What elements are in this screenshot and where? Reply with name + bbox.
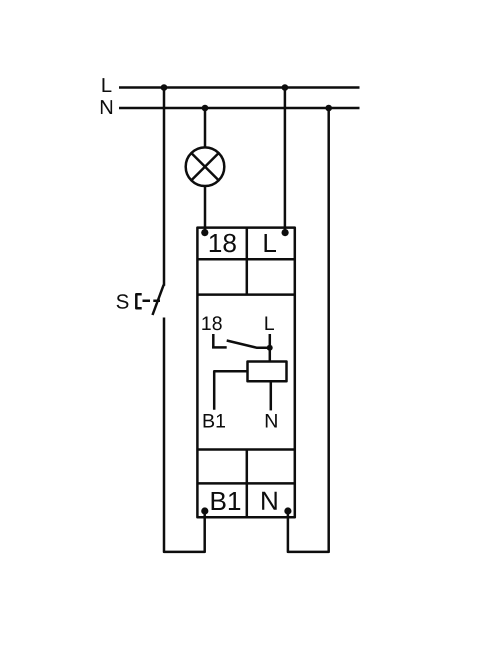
terminal N dot	[284, 507, 291, 514]
wire L supply line	[119, 86, 360, 89]
switch S actuator dashed link	[143, 300, 161, 303]
device U1 bottom terminal row divider	[197, 482, 294, 485]
internal junction dot on L	[267, 345, 273, 351]
switch S contact arm	[153, 285, 165, 316]
terminal 18 label	[210, 234, 236, 253]
switch S push-button actuator bracket	[136, 294, 141, 308]
lamp E1 cross	[191, 153, 218, 180]
internal wire from L label to coil	[269, 334, 272, 362]
junction on N line to lamp	[202, 105, 209, 112]
internal wire coil to B1	[214, 371, 247, 410]
wire from N line to lamp	[204, 108, 207, 148]
junction on L line to terminal L	[282, 84, 289, 91]
internal relay contact arm K1	[227, 341, 270, 348]
terminal 18 dot	[201, 229, 208, 236]
internal node N label	[266, 414, 277, 428]
wire from L line down to switch S	[163, 87, 166, 286]
switch S label	[117, 294, 129, 308]
wire from N line down right side to terminal N	[288, 108, 329, 552]
terminal N label	[262, 492, 277, 510]
junction on N line to terminal N branch	[325, 105, 332, 112]
device U1 bottom cells vertical divider	[246, 450, 249, 518]
node N (supply line label)	[101, 100, 112, 114]
relay coil K1	[248, 362, 287, 382]
terminal L label	[265, 234, 277, 252]
lamp E1 circle	[186, 147, 225, 186]
wire from switch S down left side	[164, 318, 205, 552]
node L (supply line label)	[103, 78, 112, 92]
internal wire from 18 label down	[212, 334, 215, 348]
terminal B1 label	[212, 492, 241, 510]
internal node L label	[265, 317, 274, 331]
device U1 top terminal row divider	[197, 258, 294, 261]
internal node 18 label	[202, 316, 221, 330]
device U1 top cells vertical divider	[246, 228, 249, 295]
terminal L dot	[282, 229, 289, 236]
internal contact fixed foot	[212, 346, 227, 349]
internal wire coil to N	[270, 381, 273, 410]
device U1 top section bottom edge	[197, 293, 294, 296]
device U1 outer body	[197, 228, 294, 518]
device U1 bottom section top edge	[197, 448, 294, 451]
terminal B1 dot	[201, 507, 208, 514]
internal node B1 label	[204, 414, 225, 428]
wire from lamp to terminal 18	[204, 186, 207, 233]
junction on L line to switch branch	[161, 84, 168, 91]
wire from L line to terminal L	[284, 88, 287, 233]
wire N supply line	[119, 107, 360, 110]
